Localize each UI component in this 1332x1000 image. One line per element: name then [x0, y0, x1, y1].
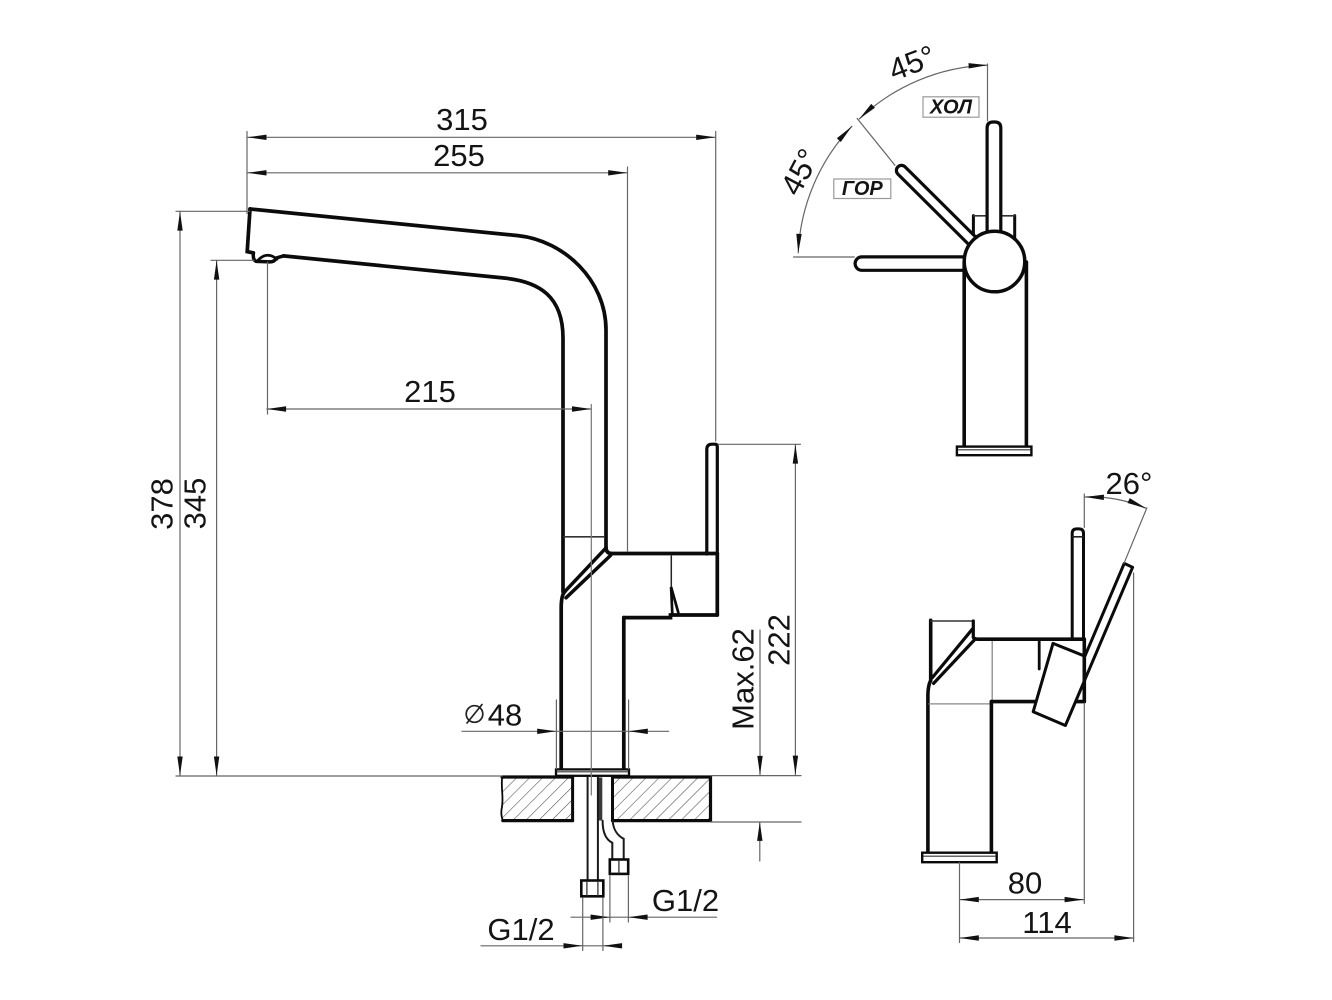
svg-text:ГОР: ГОР [842, 178, 884, 200]
extension line 26 slanted [1124, 508, 1147, 564]
svg-text:26°: 26° [1106, 466, 1153, 501]
spout joint line [564, 536, 604, 538]
body top edge [612, 552, 718, 556]
countertop hole right edge [611, 777, 614, 821]
threaded shank dark bar [598, 778, 602, 821]
lever mid position (45 deg) [902, 171, 977, 245]
extension line countertop bottom right [711, 821, 802, 823]
extension lines G1/2 right [610, 876, 629, 922]
base plate inner line [959, 449, 1031, 451]
svg-text:Max.62: Max.62 [726, 628, 761, 730]
left supply pipe [588, 777, 598, 881]
extension line axis [959, 863, 961, 943]
upright handle cap band [1073, 536, 1083, 538]
extension line 80 right / 26 vertex vertical [1083, 494, 1085, 904]
valve body right edge [715, 554, 719, 616]
spout stub right edge [973, 621, 977, 639]
aerator outlet [253, 253, 283, 262]
svg-text:255: 255 [433, 138, 485, 173]
handle mount left edge [972, 216, 975, 240]
dimension 345 line [216, 260, 218, 776]
handle mount front line [1038, 640, 1041, 669]
dimension Max.62 lower line [759, 822, 761, 861]
dimension dia48 symbol [466, 706, 483, 723]
svg-text:114: 114 [1022, 905, 1071, 940]
body bottom edge [991, 700, 1084, 704]
svg-text:G1/2: G1/2 [652, 883, 719, 918]
spout stub left edge [929, 620, 933, 680]
svg-text:48: 48 [488, 698, 522, 733]
countertop hatching left [503, 779, 573, 820]
cone shoulder upper line [565, 548, 606, 591]
base plate [922, 853, 997, 863]
handle mount right edge [1013, 216, 1016, 240]
dimension 114 line [960, 937, 1134, 939]
countertop bottom surface [503, 819, 711, 822]
right supply hose S-bend [603, 821, 624, 860]
right hose fitting nut [610, 860, 628, 874]
extension line countertop surface right [711, 775, 802, 777]
handle lever (main view, drawn under body top edge) [707, 444, 718, 554]
base plate (escutcheon) [556, 769, 629, 775]
spout tip left edge [247, 209, 253, 253]
countertop hole left edge [571, 777, 574, 821]
extension line 215 left [267, 262, 269, 414]
dimension 315 line [247, 136, 716, 138]
countertop broken left edge [501, 777, 503, 821]
dimension 378 line [179, 211, 181, 776]
lever cold position (vertical) [987, 122, 1001, 234]
dimension G1/2 right line [571, 916, 717, 918]
extension line handle top [719, 443, 801, 445]
spout inner (bottom) edge [284, 256, 564, 592]
cone shoulder upper line [932, 629, 972, 678]
extension line 315 right [715, 132, 717, 442]
svg-text:ХОЛ: ХОЛ [929, 96, 973, 118]
centre axis line [590, 405, 592, 796]
column right edge [990, 702, 994, 853]
aerator inner dome [258, 255, 278, 260]
extension line 45 lever axis [857, 118, 895, 165]
dimension 215 line [267, 408, 592, 410]
countertop hatching right [613, 779, 711, 820]
base plate [957, 447, 1032, 456]
extension line aerator [211, 259, 254, 261]
dimension 222 line [794, 444, 796, 775]
cartridge circle [964, 231, 1025, 292]
svg-text:345: 345 [178, 478, 213, 530]
dimension 80 line [960, 899, 1084, 901]
spout stub top edge [931, 620, 974, 622]
cone shoulder lower line [934, 639, 976, 684]
svg-text:315: 315 [436, 102, 488, 137]
tilted handle blade [1033, 563, 1132, 725]
label box GOR (hot) [834, 179, 891, 199]
body left edge [928, 681, 931, 853]
svg-text:80: 80 [1008, 866, 1042, 901]
extension line spout top [176, 210, 250, 212]
svg-text:215: 215 [404, 374, 456, 409]
dimension G1/2 left line [481, 945, 621, 947]
left pipe fitting nut [581, 881, 603, 897]
dimension Max.62 upper line [759, 630, 761, 775]
extension line vertical lever axis [987, 64, 989, 121]
dimension dia48 line [462, 730, 669, 732]
body corner arc to top edge [606, 548, 612, 554]
handle mount top lines [973, 215, 1014, 217]
extension line horizontal lever axis [794, 256, 855, 258]
base plate inner line [557, 771, 628, 773]
dimension 255 line [247, 172, 628, 174]
angle arc 26 [1084, 497, 1146, 508]
extension line 255 right [627, 167, 629, 552]
handle stem wedge [671, 587, 678, 614]
hidden column edge [991, 641, 993, 700]
body right edge [1083, 639, 1087, 701]
column right edge [1025, 262, 1029, 447]
extension lines G1/2 left [583, 898, 603, 951]
svg-text:222: 222 [762, 614, 797, 666]
body left edge [561, 592, 565, 770]
body right edge lower column [622, 618, 626, 770]
countertop top surface [502, 775, 711, 778]
extension line 114 right [1133, 573, 1135, 942]
extension line spout tip vertical [246, 132, 248, 214]
upright handle position [1072, 529, 1083, 639]
base plate inner line [924, 855, 996, 857]
extension line countertop surface left [176, 775, 502, 777]
label box XOL (cold) [923, 97, 979, 117]
column left edge [962, 262, 966, 447]
hidden joint line [929, 703, 990, 705]
spout outer edge [250, 209, 606, 548]
countertop right end edge [709, 777, 712, 821]
right fitting facet line [618, 861, 620, 874]
svg-text:G1/2: G1/2 [487, 912, 554, 947]
svg-text:378: 378 [145, 478, 180, 530]
left fitting facet lines [587, 882, 598, 896]
body top edge [978, 637, 1085, 641]
lever hot position (horizontal) [862, 255, 980, 272]
extension lines dia48 [556, 700, 628, 769]
angle arc 45 upper [859, 65, 987, 119]
handle stem hidden line [670, 556, 672, 587]
cone shoulder lower line [566, 555, 611, 597]
valve body bottom edge [624, 615, 718, 618]
angle arc 45 left [798, 126, 852, 253]
